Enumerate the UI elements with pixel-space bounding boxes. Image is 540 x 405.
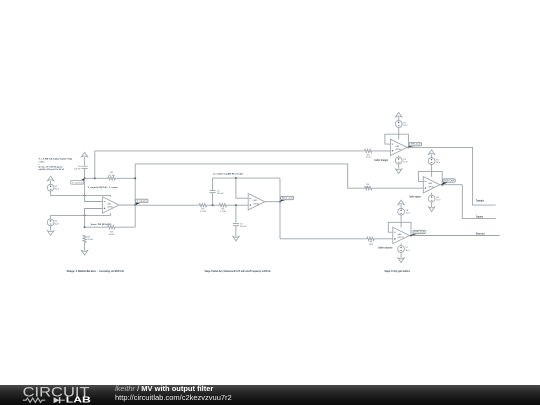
op-amp OA1 (102, 197, 119, 213)
svg-text:2.7 kΩ: 2.7 kΩ (220, 211, 227, 213)
feedback loop OA3 (385, 134, 409, 147)
footer title line (115, 384, 213, 393)
wire feedback to inverting input (236, 178, 248, 198)
wire divider to R3 (85, 226, 108, 228)
net label V_square (135, 203, 141, 206)
svg-text:buffer triangle: buffer triangle (375, 159, 389, 162)
voltage source V8 (398, 208, 405, 215)
op-amp OA3 (390, 139, 407, 155)
power flag +Vcc above C4 (81, 152, 87, 157)
svg-text:2.7 kΩ: 2.7 kΩ (200, 211, 207, 213)
capacitor C4 (82, 165, 88, 167)
svg-text:10 Ω: 10 Ω (366, 157, 371, 159)
junction C3 tap (235, 204, 237, 206)
capacitor C2 (210, 189, 216, 191)
footer bar (0, 385, 540, 405)
wire node A to inverting input (85, 178, 103, 201)
resistor R4 (108, 177, 115, 180)
wire OA2 output (265, 201, 280, 203)
svg-text:10 V: 10 V (406, 250, 411, 252)
svg-text:TRI_buf: TRI_buf (410, 144, 421, 146)
voltage source V6 (428, 195, 435, 202)
ground flag under V4 (396, 169, 402, 174)
resistor R9 (367, 237, 374, 240)
junction feedback inverting tap (235, 177, 237, 179)
wire OA4 V- to V6 (431, 193, 433, 196)
ground flag under V2 (47, 231, 53, 236)
voltage source V1 (47, 184, 54, 191)
wire V2 to V- rail (51, 215, 111, 219)
junction V+ rail (84, 194, 86, 196)
wire tap up to top rail (94, 151, 96, 178)
voltage source V3 (395, 121, 402, 128)
wire C3 to ground (235, 226, 237, 237)
wire OA1 output (119, 204, 135, 206)
svg-text:100 nF: 100 nF (240, 226, 247, 228)
net label TRI_buf (408, 146, 415, 148)
svg-text:Vp V: Vp V (55, 223, 60, 225)
wire C2 branch lower (212, 193, 214, 206)
svg-text:LM741: LM741 (107, 207, 114, 209)
svg-text:10 kΩ: 10 kΩ (109, 234, 115, 236)
wire R8 to OA4 (372, 187, 424, 189)
voltage source V7 (398, 246, 405, 253)
CircuitLab logo (0, 385, 110, 405)
wire V1 to V+ rail (51, 191, 111, 195)
wire C4 bottom to node A (84, 168, 86, 178)
capacitor C3 (233, 223, 239, 225)
wire OA4 output (440, 184, 462, 186)
ground flag under V7 (398, 258, 404, 263)
resistor R2 (83, 235, 86, 242)
wire V3 to OA3 V+ (398, 127, 400, 139)
svg-text:Sine_out: Sine_out (282, 197, 293, 200)
wire OA5 V- to V7 (400, 244, 402, 246)
voltage source V5 (428, 158, 435, 165)
logo diode (54, 397, 60, 403)
resistor R6 (219, 204, 226, 207)
wire OA3 to Triangle terminal (407, 147, 496, 205)
net label SQU_buf (442, 182, 449, 185)
footer url line (115, 393, 232, 402)
net label V_control at node A (79, 178, 85, 181)
junction divider node (84, 226, 86, 228)
wire sine to buffer R9 (280, 238, 367, 240)
wire top rail to buffer R7 (95, 150, 365, 152)
wire R9 to OA5 input (374, 238, 393, 240)
ground flag under C3 (233, 236, 239, 241)
feedback loop OA4 (418, 171, 442, 184)
wire OA2 output vertical (279, 178, 281, 239)
svg-text:Stage 1 Multivibrator - runnin: Stage 1 Multivibrator - running at 960 H… (67, 269, 125, 273)
svg-text:buffer square: buffer square (410, 196, 422, 198)
wire R4 to output vertical (115, 177, 135, 179)
svg-text:10 kΩ: 10 kΩ (87, 239, 93, 241)
svg-text:10 Ω: 10 Ω (369, 244, 374, 246)
svg-text:Stage 3 Unity gain buffers: Stage 3 Unity gain buffers (384, 269, 410, 273)
wire V4 to ground (398, 164, 400, 169)
wire flag to V3 (398, 117, 400, 121)
resistor R7 (365, 149, 372, 152)
resistor R3 (108, 226, 115, 229)
wire R6 to OA2 input (227, 204, 249, 206)
svg-text:Triangle: Triangle (476, 199, 485, 203)
junction feedback tap (94, 177, 96, 179)
wire square rail (135, 164, 364, 188)
svg-text:SIN_buf: SIN_buf (414, 232, 425, 234)
feedback loop OA5 (388, 222, 411, 235)
stub V- to op-amp (110, 213, 112, 215)
svg-text:100 nF: 100 nF (74, 169, 81, 171)
svg-text:10 V: 10 V (436, 200, 441, 202)
wire flag to V1 (50, 181, 52, 185)
junction OA5 output (410, 234, 412, 236)
wire OA1 to R5 (135, 204, 199, 206)
wire V8 to OA5 V+ (400, 215, 402, 227)
junction OA1 output (134, 204, 136, 206)
junction node A (84, 177, 86, 179)
junction OA2 output (279, 201, 281, 203)
svg-text:10 V: 10 V (403, 125, 408, 127)
wire OA4 to Square terminal (462, 185, 496, 219)
power flag above V3 (396, 112, 402, 117)
svg-text:V_square: V_square (137, 201, 148, 203)
svg-text:LAB: LAB (66, 395, 92, 404)
wire flag to V8 (400, 205, 402, 209)
wire V6 to ground (431, 202, 433, 207)
svg-text:Square: Square (476, 215, 483, 219)
svg-text:LM741: LM741 (253, 203, 260, 205)
wire R5 to R6 (207, 204, 220, 206)
wire OA3 V- to V4 (398, 156, 400, 158)
svg-text:10 V: 10 V (406, 213, 411, 215)
op-amp OA2 (248, 194, 265, 210)
net label V_sine (280, 200, 287, 202)
wire OA5 to Sinusoid terminal (409, 235, 499, 237)
power flag above V5 (428, 150, 434, 155)
svg-text:with R4 = 8.7k and C4 = 100 nF: with R4 = 8.7k and C4 = 100 nF (39, 168, 65, 171)
wire V7 to ground (400, 252, 402, 258)
wire flag to C4 top (84, 157, 86, 165)
op-amp OA5 (393, 227, 410, 243)
svg-text:Sinusoid: Sinusoid (476, 232, 485, 236)
wire R3 to output vertical (115, 226, 135, 228)
junction output-R4 (134, 177, 136, 179)
net label SIN_buf (411, 234, 419, 236)
wire V5 to OA4 V+ (431, 164, 433, 176)
svg-text:Stage 2 Sallen-Key / Butterwor: Stage 2 Sallen-Key / Butterworth LPF wit… (205, 269, 272, 273)
svg-text:10 V: 10 V (403, 161, 408, 163)
power flag above V1 (47, 176, 53, 181)
wire C2 to top feedback (213, 178, 280, 190)
svg-text:LM741: LM741 (428, 186, 435, 188)
svg-text:10 V: 10 V (436, 162, 441, 164)
svg-text:T = 2·R4·C4·ln((1+Vc)/(1−Vc)): T = 2·R4·C4·ln((1+Vc)/(1−Vc)) (39, 157, 73, 160)
wire C3 branch (235, 205, 237, 222)
logo resistor zigzag (23, 398, 45, 402)
svg-text:fc = 1/(2·pi·sqrt(R5 R6 C2 C3): fc = 1/(2·pi·sqrt(R5 R6 C2 C3)) (213, 173, 243, 176)
junction C2 tap (212, 204, 214, 206)
voltage source V4 (395, 157, 402, 164)
ground flag under R2 (81, 250, 87, 255)
wire R2 to ground (84, 243, 86, 251)
output vertical wire (134, 164, 136, 227)
svg-text:SQU_buf: SQU_buf (444, 180, 455, 182)
op-amp OA4 (423, 177, 440, 193)
wire divider to non-inverting input (85, 209, 103, 228)
junction V- rail (84, 214, 86, 216)
ground flag under V6 (428, 207, 434, 212)
wire node A to R4 (85, 177, 108, 179)
wire R7 to OA3 (372, 150, 391, 152)
svg-text:LM741: LM741 (395, 149, 402, 151)
svg-text:V_control=(1/3)*Vdd ^ V_square: V_control=(1/3)*Vdd ^ V_square (88, 186, 119, 189)
svg-text:buffer sinusoid: buffer sinusoid (378, 248, 392, 250)
voltage source V2 (47, 219, 54, 226)
junction OA3 output (407, 146, 409, 148)
svg-text:LM741: LM741 (397, 237, 404, 239)
junction OA4 output (441, 184, 443, 186)
svg-text:Vp V: Vp V (55, 189, 60, 191)
svg-text:10 Ω: 10 Ω (365, 186, 370, 188)
wire flag to V5 (431, 154, 433, 157)
resistor R8 (364, 187, 371, 190)
power flag above V8 (398, 200, 404, 205)
svg-text:100 nF: 100 nF (217, 193, 224, 195)
svg-text:V_control: V_control (72, 181, 84, 184)
svg-text:8.7 kΩ: 8.7 kΩ (108, 175, 115, 177)
resistor R5 (199, 204, 206, 207)
wire V2 to ground flag (50, 226, 52, 231)
stub V+ to op-amp (110, 195, 112, 196)
